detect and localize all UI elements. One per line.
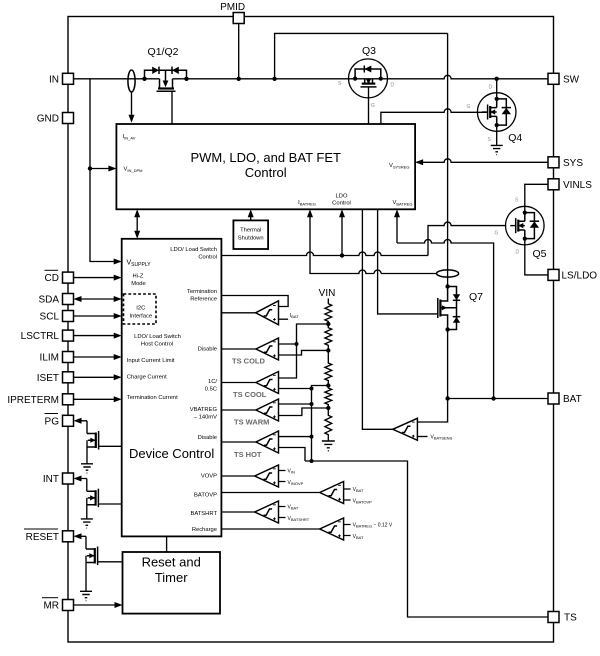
wire SYS horizontal from SYS pin to PWM block (arrow into block, hop over PMID vertical) bbox=[415, 159, 548, 165]
svg-text:BATSHRT: BATSHRT bbox=[190, 511, 217, 517]
svg-text:MR: MR bbox=[43, 601, 59, 612]
svg-text:Recharge: Recharge bbox=[192, 527, 217, 533]
svg-text:Input Current Limit: Input Current Limit bbox=[127, 358, 175, 364]
svg-text:VBATREG: VBATREG bbox=[190, 407, 218, 413]
current sense ellipse on IN rail bbox=[128, 70, 135, 92]
pin IPRETERM bbox=[7, 394, 73, 406]
pin ISET bbox=[37, 372, 74, 384]
wire MR arrow into Reset and Timer bbox=[74, 602, 123, 608]
wire VBATSENS input stub bbox=[417, 435, 452, 441]
ground Q4 source bbox=[491, 145, 503, 154]
svg-text:TS WARM: TS WARM bbox=[234, 418, 269, 427]
svg-text:Q3: Q3 bbox=[362, 45, 376, 57]
svg-text:RESET: RESET bbox=[26, 532, 59, 543]
svg-text:PMID: PMID bbox=[220, 2, 245, 13]
block Device Control bbox=[122, 239, 222, 537]
svg-text:LDO: LDO bbox=[336, 194, 348, 200]
svg-text:CD: CD bbox=[45, 273, 59, 284]
ground PG FET bbox=[81, 464, 93, 473]
wire Recharge input stubs bbox=[344, 523, 393, 541]
transistor Q7 BATFET bbox=[438, 284, 460, 331]
wire IBAT sense from ellipse to PWM block arrow (hops at 362,377) bbox=[307, 209, 437, 273]
wire web to TS COOL lower input bbox=[279, 388, 312, 390]
wire Device Control to Reset and Timer bbox=[166, 536, 168, 552]
transistor Q3 bbox=[349, 59, 388, 98]
pin LSCTRL bbox=[21, 330, 74, 342]
pin PMID bbox=[220, 2, 245, 24]
svg-text:TS COLD: TS COLD bbox=[232, 357, 265, 366]
junction tap2 bbox=[326, 348, 330, 352]
wire PMID drop to IN rail bbox=[238, 24, 240, 79]
wire tap2 to TS COLD lower input bbox=[279, 350, 329, 355]
wire tap1 to TS COLD upper input bbox=[279, 324, 329, 378]
wire BATSHRT output into Device Control bbox=[221, 511, 254, 513]
wire LSCTRL arrow into Device Control bbox=[74, 333, 122, 339]
svg-text:VINLS: VINLS bbox=[563, 180, 592, 191]
svg-text:Hi-Z: Hi-Z bbox=[133, 274, 144, 280]
svg-text:Control: Control bbox=[332, 201, 351, 207]
wire Q7 source down to BAT rail bbox=[447, 330, 449, 399]
svg-text:TS: TS bbox=[564, 613, 577, 624]
wire RESET open-drain output arrow to pin bbox=[74, 533, 87, 549]
svg-text:D: D bbox=[516, 250, 520, 256]
ground RESET FET bbox=[80, 591, 92, 600]
junction BAT rail / VBATREG vertical bbox=[491, 396, 495, 400]
svg-text:BAT: BAT bbox=[563, 394, 582, 405]
junction tap4 bbox=[326, 406, 330, 410]
block Reset and Timer bbox=[123, 552, 221, 614]
wire Q4 gate from PWM block top (hop over PMID vertical) bbox=[381, 109, 488, 124]
svg-text:– 140mV: – 140mV bbox=[194, 415, 217, 421]
comparator IBAT termination bbox=[256, 301, 279, 325]
comparator VOVP bbox=[255, 465, 279, 487]
wire Q4 drain from IN rail bbox=[496, 79, 498, 93]
wire Q7 gate drive from PWM block bbox=[378, 209, 438, 314]
wire SCL arrow into Device Control bbox=[74, 313, 122, 319]
wire SYS vertical from top jog down through Q4 gate node, SYS net, current-sense ellipse to Q7 drain bbox=[447, 33, 449, 286]
junction tap1 web bbox=[295, 342, 299, 346]
svg-text:IIN_AV: IIN_AV bbox=[123, 134, 136, 141]
pin SDA bbox=[38, 294, 73, 306]
comparator TS HOT bbox=[234, 431, 279, 459]
svg-text:D: D bbox=[391, 83, 395, 89]
comparator BATOVP bbox=[320, 482, 344, 504]
label Q7 bbox=[469, 291, 483, 303]
wire CD arrow into Device Control bbox=[74, 275, 122, 281]
svg-text:PWM, LDO, and BAT FET: PWM, LDO, and BAT FET bbox=[190, 150, 341, 165]
wire Q5 gate drive (hop over SYS vertical) bbox=[428, 222, 506, 255]
pin MR (active low) bbox=[42, 598, 74, 612]
transistor INT open-drain FET bbox=[87, 489, 99, 519]
wire tap3 vertical web bbox=[312, 386, 329, 462]
wire VBATSENS comparator output up into PWM block bbox=[362, 209, 392, 429]
junction TS net / web vertical bbox=[310, 459, 314, 463]
pin IN bbox=[49, 73, 74, 85]
svg-text:G: G bbox=[371, 103, 375, 109]
wire TS HOT lower input to TS net bbox=[279, 448, 306, 462]
junction web WARM bbox=[310, 402, 314, 406]
resistor TS divider R2 bbox=[325, 324, 332, 350]
junction Q4 drain / rail bbox=[495, 77, 499, 81]
svg-text:BATOVP: BATOVP bbox=[194, 493, 217, 499]
wire input current sense arrow into PWM block top bbox=[129, 92, 135, 123]
svg-text:Charge Current: Charge Current bbox=[127, 375, 167, 381]
svg-text:TS HOT: TS HOT bbox=[234, 450, 262, 459]
pin INT bbox=[43, 473, 74, 485]
wire VSUPPLY tap from IN rail down left side into Device Control bbox=[90, 79, 122, 265]
svg-text:IN: IN bbox=[49, 74, 59, 85]
wire IBAT input stub bbox=[279, 313, 300, 319]
transistor Q5 bbox=[506, 206, 545, 245]
label Q4 bbox=[467, 85, 523, 145]
wire IBAT comparator output into Device Control bbox=[221, 312, 255, 314]
junction tap1 bbox=[326, 322, 330, 326]
svg-text:Control: Control bbox=[198, 255, 217, 261]
pin SYS bbox=[548, 157, 583, 169]
wire VOVP input stubs VIN / VINOVP bbox=[279, 469, 304, 487]
svg-text:Reset and: Reset and bbox=[142, 555, 201, 570]
pin ILIM bbox=[40, 352, 74, 364]
junction rail/up-and-over bbox=[272, 77, 276, 81]
pin BAT bbox=[548, 393, 582, 405]
svg-text:VSYSREG: VSYSREG bbox=[389, 163, 410, 170]
wire Q5 drain to LS/LDO pin bbox=[525, 245, 548, 275]
ground INT FET bbox=[81, 519, 93, 528]
wire PG FET gate from Device Control bbox=[99, 445, 122, 447]
wire VINLS pin to Q5 source bbox=[525, 184, 548, 206]
pin PG (active low) bbox=[45, 414, 74, 428]
svg-text:Termination Current: Termination Current bbox=[127, 395, 178, 401]
wire Q3 gate down into PWM block top bbox=[368, 87, 370, 124]
svg-text:Reference: Reference bbox=[190, 297, 217, 303]
block Thermal Shutdown bbox=[233, 220, 268, 249]
svg-text:VIN: VIN bbox=[319, 288, 336, 299]
block PWM, LDO, and BAT FET Control bbox=[116, 124, 415, 209]
wire BATOVP output into Device Control bbox=[221, 492, 319, 494]
ground TS divider bbox=[322, 441, 335, 451]
svg-text:VINOVP: VINOVP bbox=[288, 480, 304, 486]
junction LDO control branch bbox=[340, 253, 344, 257]
wire BATSHRT input stubs bbox=[279, 505, 310, 523]
svg-text:VBATREG − 0.12 V: VBATREG − 0.12 V bbox=[353, 523, 393, 529]
junction BAT rail / Q7 vertical bbox=[445, 396, 449, 400]
wire VIN_DPM branch into PWM block bbox=[90, 166, 116, 172]
wire SDA bidirectional bbox=[74, 296, 122, 302]
svg-text:VIN: VIN bbox=[288, 469, 295, 475]
pin VINLS bbox=[548, 179, 592, 191]
block I2C Interface (dashed) bbox=[124, 294, 157, 324]
svg-text:SW: SW bbox=[563, 74, 580, 85]
svg-text:LDO/ Load Switch: LDO/ Load Switch bbox=[170, 247, 217, 253]
wire RESET FET gate to Reset and Timer bbox=[98, 561, 123, 563]
svg-text:VIN_DPM: VIN_DPM bbox=[124, 167, 143, 174]
comparator TS WARM bbox=[234, 399, 279, 427]
pin LS/LDO bbox=[548, 269, 597, 281]
junction VIN_DPM branch bbox=[88, 166, 92, 170]
comparator Recharge bbox=[320, 518, 344, 540]
wire BATOVP input stubs bbox=[344, 487, 373, 505]
svg-text:Q7: Q7 bbox=[469, 291, 483, 303]
svg-text:VBATREG: VBATREG bbox=[392, 200, 412, 207]
wire VBATREG feedback from BAT rail to PWM block arrow (hops at 428,447.6) bbox=[394, 209, 494, 398]
transistor PG open-drain FET bbox=[87, 431, 99, 464]
svg-text:I2C: I2C bbox=[136, 306, 145, 312]
comparator TS COLD bbox=[232, 338, 279, 366]
IC boundary frame wire bbox=[68, 17, 554, 643]
wire Termination Reference to comparator bbox=[221, 296, 288, 307]
wire Recharge output into Device Control bbox=[221, 528, 319, 530]
wire web to TS WARM upper input bbox=[279, 403, 312, 405]
wire BAT sense to VBATSENS comparator top input bbox=[417, 399, 447, 423]
svg-text:VBAT: VBAT bbox=[353, 534, 364, 540]
svg-text:Shutdown: Shutdown bbox=[238, 236, 264, 242]
svg-text:Timer: Timer bbox=[155, 570, 188, 585]
svg-text:Disable: Disable bbox=[198, 435, 217, 441]
wire ILIM arrow into Device Control bbox=[74, 354, 122, 360]
label Q5 bbox=[495, 198, 547, 261]
wire TS WARM output into Device Control bbox=[221, 409, 256, 411]
wire ISET arrow into Device Control bbox=[74, 374, 122, 380]
svg-text:IBAT: IBAT bbox=[290, 313, 299, 319]
svg-text:Q5: Q5 bbox=[533, 248, 547, 260]
wire INT FET gate from Device Control bbox=[98, 503, 121, 505]
svg-text:VBATSENS: VBATSENS bbox=[431, 435, 453, 441]
transistor RESET open-drain FET bbox=[86, 547, 98, 592]
svg-text:Thermal: Thermal bbox=[240, 228, 261, 234]
svg-text:VBATOVP: VBATOVP bbox=[353, 499, 373, 505]
svg-text:TS COOL: TS COOL bbox=[233, 390, 267, 399]
transistor Q1/Q2 back-to-back input FETs bbox=[142, 67, 188, 92]
svg-text:LDO/ Load Switch: LDO/ Load Switch bbox=[134, 334, 181, 340]
svg-text:1C/: 1C/ bbox=[208, 379, 217, 385]
svg-text:0.5C: 0.5C bbox=[205, 387, 217, 393]
resistor ladder VIN lead bbox=[319, 288, 336, 304]
wire IPRETERM arrow into Device Control bbox=[74, 396, 122, 402]
wire TS COOL output into Device Control bbox=[221, 382, 256, 384]
wire VOVP output into Device Control bbox=[221, 475, 254, 477]
svg-text:D: D bbox=[489, 85, 493, 91]
wire INT open-drain output arrow to pin bbox=[74, 476, 87, 492]
pin SCL bbox=[40, 311, 74, 323]
svg-text:ISET: ISET bbox=[37, 373, 59, 384]
current sense ellipse on BATFET path bbox=[437, 270, 459, 277]
wire Thermal Shutdown arrow into PWM block bbox=[248, 209, 254, 220]
svg-text:G: G bbox=[467, 104, 471, 110]
svg-text:G: G bbox=[495, 231, 499, 237]
wire TS HOT output into Device Control bbox=[221, 441, 256, 443]
junction PMID/rail bbox=[237, 77, 241, 81]
wire PMID node up-and-over to SYS vertical bbox=[275, 33, 448, 78]
wire bidirectional link PWM block / Device Control bbox=[134, 209, 140, 239]
svg-text:SYS: SYS bbox=[563, 158, 583, 169]
svg-text:LS/LDO: LS/LDO bbox=[562, 270, 598, 281]
svg-text:Control: Control bbox=[245, 165, 287, 180]
comparator VBATSENS bbox=[393, 418, 418, 440]
svg-text:PG: PG bbox=[45, 416, 60, 427]
svg-text:VBATSHRT: VBATSHRT bbox=[288, 516, 310, 522]
svg-text:GND: GND bbox=[37, 114, 59, 125]
svg-text:IBATREG: IBATREG bbox=[298, 200, 316, 207]
label Q1/Q2 bbox=[148, 46, 179, 58]
wire web to TS HOT upper input bbox=[279, 436, 312, 438]
svg-text:Q1/Q2: Q1/Q2 bbox=[148, 46, 179, 58]
transistor Q4 bbox=[477, 93, 516, 132]
wire BAT rail to BAT pin bbox=[448, 398, 548, 400]
pin CD (active low) bbox=[45, 270, 74, 284]
svg-text:ILIM: ILIM bbox=[40, 353, 59, 364]
label Q3 bbox=[338, 45, 395, 109]
svg-text:Q4: Q4 bbox=[508, 132, 522, 144]
svg-text:VBAT: VBAT bbox=[353, 487, 364, 493]
svg-text:Host Control: Host Control bbox=[141, 342, 173, 348]
wire TS COLD output into Device Control bbox=[221, 348, 256, 350]
svg-text:VBAT: VBAT bbox=[288, 505, 299, 511]
svg-text:LSCTRL: LSCTRL bbox=[21, 331, 60, 342]
comparator BATSHRT bbox=[255, 501, 279, 523]
svg-text:Mode: Mode bbox=[131, 281, 146, 287]
svg-text:Interface: Interface bbox=[130, 314, 153, 320]
junction web HOT bbox=[310, 435, 314, 439]
svg-text:Termination: Termination bbox=[187, 289, 217, 295]
resistor TS divider R5 bbox=[325, 408, 332, 441]
svg-text:VOVP: VOVP bbox=[201, 474, 217, 480]
resistor TS divider R1 bbox=[325, 304, 332, 324]
wire Q4 source to ground bbox=[496, 125, 498, 145]
wire PG open-drain output arrow to pin bbox=[74, 418, 88, 434]
wire tap4 to TS WARM lower input bbox=[279, 408, 329, 416]
wire Q1/Q2 gate down into PWM block bbox=[171, 91, 173, 124]
resistor TS divider R4 bbox=[325, 386, 332, 409]
wire LDO control from Device Control to PWM Control arrow (hops at 310,362,377) bbox=[221, 209, 428, 255]
pin RESET (active low) bbox=[24, 529, 74, 543]
svg-text:IPRETERM: IPRETERM bbox=[7, 395, 59, 406]
svg-text:SDA: SDA bbox=[38, 295, 59, 306]
comparator TS COOL bbox=[233, 372, 279, 400]
svg-text:INT: INT bbox=[43, 474, 59, 485]
pin SW bbox=[548, 73, 580, 85]
resistor TS divider R3 bbox=[325, 350, 332, 385]
pin GND bbox=[37, 113, 74, 125]
pin TS bbox=[548, 612, 577, 624]
junction web COOL bbox=[310, 387, 314, 391]
wire TS net to TS pin bbox=[305, 461, 548, 617]
wire IN rail from IN pin through Q1/Q2 and Q3 to SW pin (hop over SYS vertical) bbox=[74, 75, 549, 78]
svg-text:Device Control: Device Control bbox=[129, 446, 214, 461]
svg-text:Disable: Disable bbox=[198, 347, 217, 353]
svg-text:SCL: SCL bbox=[40, 312, 60, 323]
junction tap3 bbox=[326, 383, 330, 387]
